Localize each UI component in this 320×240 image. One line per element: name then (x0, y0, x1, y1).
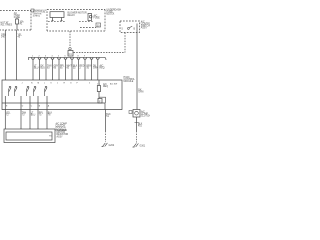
svg-text:DKBLU: DKBLU (41, 66, 46, 70)
svg-text:B: B (134, 29, 136, 31)
svg-text:UNDERDASHFUSEBLOCK: UNDERDASHFUSEBLOCK (107, 8, 122, 15)
svg-text:5: 5 (89, 83, 91, 85)
svg-text:PPL75: PPL75 (39, 113, 44, 117)
A/C compressor clutch wire (right) (136, 33, 138, 110)
ignition switch box (dashed, top-right) (120, 21, 140, 33)
row label box (68, 51, 73, 57)
svg-text:LTBLU: LTBLU (34, 66, 39, 70)
svg-text:A/C COMPCLUTCHDIODE INHARNESS: A/C COMPCLUTCHDIODE INHARNESS (56, 123, 68, 132)
tiny text labels (1, 8, 153, 147)
fuse block box (dashed, top-left) (0, 11, 31, 31)
svg-text:A/C SW: A/C SW (110, 83, 117, 86)
svg-text:BLK51: BLK51 (106, 114, 111, 118)
svg-text:F: F (77, 83, 79, 85)
connector row C1 (29, 57, 106, 60)
svg-text:J: J (22, 83, 23, 85)
svg-text:D: D (22, 105, 24, 107)
svg-text:A/CCOMPCLUTCH: A/CCOMPCLUTCH (141, 111, 150, 118)
svg-text:YEL72: YEL72 (6, 113, 11, 117)
clutch connector marker (129, 111, 132, 114)
svg-text:TAN63: TAN63 (47, 65, 52, 70)
relay/fuse box 2 (dashed, top-middle) (47, 10, 105, 32)
svg-text:E: E (6, 105, 8, 107)
svg-text:G301: G301 (140, 145, 146, 147)
HVAC control module box (2, 80, 122, 110)
svg-text:B: B (39, 105, 41, 107)
svg-text:RED2: RED2 (80, 66, 85, 70)
internal A/C request switch (98, 80, 100, 86)
svg-text:K: K (51, 83, 53, 85)
row terminal hooks (32, 58, 100, 60)
dashed net to ignition switch (74, 52, 126, 54)
internal wires to bottom pins (5, 96, 47, 103)
svg-text:C1: C1 (69, 53, 73, 56)
svg-text:TAN73: TAN73 (22, 112, 27, 117)
ground G (right) (133, 143, 139, 147)
fuse F1 (16, 19, 19, 24)
svg-text:UNDERHOODELECTRICALCENTER(UHEC: UNDERHOODELECTRICALCENTER(UHEC) (33, 10, 47, 18)
svg-text:BLOWER MOTORRELAY: BLOWER MOTORRELAY (68, 13, 87, 17)
dashed wire from relay box to connector row (69, 31, 71, 47)
svg-text:BRN50: BRN50 (87, 66, 92, 70)
fuse F2 (88, 14, 92, 21)
blower resistor box (4, 129, 55, 143)
svg-text:GRY66: GRY66 (54, 66, 59, 70)
switch symbol (127, 28, 129, 30)
svg-text:A/CFUSE: A/CFUSE (94, 15, 101, 20)
svg-text:BLK451: BLK451 (138, 123, 143, 127)
svg-text:PPL65: PPL65 (60, 66, 65, 70)
svg-text:BLK76: BLK76 (48, 113, 53, 117)
svg-text:A/CREQ: A/CREQ (100, 65, 105, 70)
svg-text:A: A (48, 104, 50, 107)
pin box (96, 23, 101, 27)
wires module to resistor box (5, 103, 47, 129)
wire from fuse block left (4, 30, 6, 80)
wire to ground G (left) (105, 110, 107, 132)
wire from fuse F1 down (16, 30, 18, 80)
compressor clutch (133, 110, 140, 118)
wires from row to module (33, 59, 98, 80)
svg-text:G: G (70, 83, 72, 85)
svg-text:5: 5 (122, 29, 124, 31)
svg-text:1 C: 1 C (97, 84, 101, 86)
svg-text:N: N (31, 83, 33, 85)
svg-text:J: J (57, 83, 58, 85)
svg-text:A/CREQ: A/CREQ (103, 83, 108, 88)
svg-text:WHT60: WHT60 (67, 66, 73, 70)
svg-text:H: H (64, 83, 66, 85)
svg-text:YEL43: YEL43 (18, 35, 23, 39)
svg-text:A/CCONTROLSWITCHASSY: A/CCONTROLSWITCHASSY (141, 20, 150, 29)
svg-text:HVACCONTROLMODULE: HVACCONTROLMODULE (124, 76, 136, 83)
svg-text:G202: G202 (109, 145, 115, 147)
relay K1 (50, 12, 64, 18)
svg-text:10AA1: 10AA1 (20, 21, 25, 26)
connector label box on fuse block corner (31, 9, 34, 12)
svg-text:C: C (31, 105, 33, 107)
svg-text:HOT ATALL TIMES: HOT ATALL TIMES (1, 22, 13, 27)
svg-text:DKGRN: DKGRN (138, 90, 143, 94)
svg-text:LTBLU: LTBLU (31, 113, 36, 117)
svg-text:L: L (44, 83, 46, 85)
svg-text:ACHVACFUSE: ACHVACFUSE (14, 12, 21, 19)
internal switch symbols (9, 88, 18, 97)
svg-text:M: M (38, 83, 40, 85)
svg-text:BLK52: BLK52 (73, 66, 78, 70)
